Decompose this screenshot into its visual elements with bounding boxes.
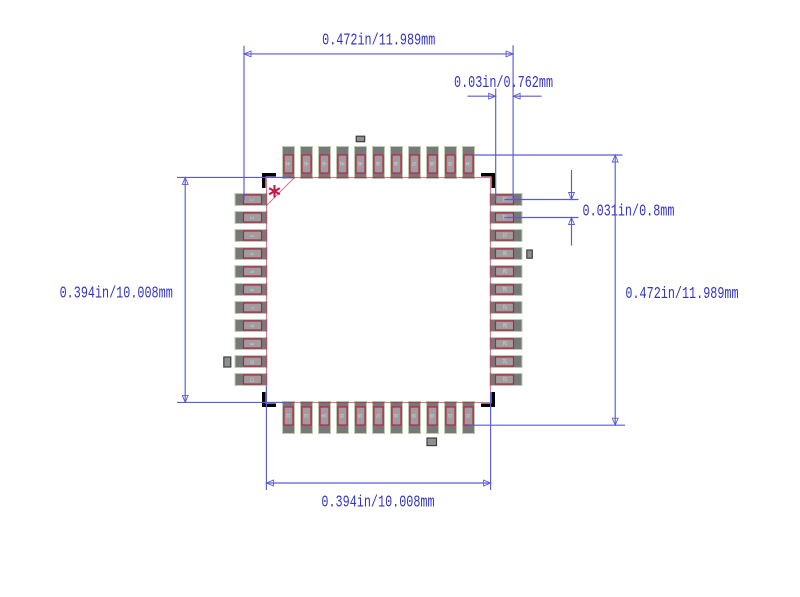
svg-text:25: 25 [502,341,508,346]
corner bracket top-left [264,175,276,188]
pad 28 (right) [490,284,522,296]
pad 24 (right) [490,356,522,368]
pad 25 (right) [490,338,522,350]
pad 42 (top) [319,147,331,179]
orientation mark right [527,250,533,258]
pad 38 (top) [391,147,403,179]
pad 19 (bottom) [409,402,421,434]
pad 26 (right) [490,320,522,332]
svg-text:0.394in/10.008mm: 0.394in/10.008mm [60,285,173,303]
svg-text:0.031in/0.8mm: 0.031in/0.8mm [583,203,675,221]
svg-text:38: 38 [394,160,399,166]
pad 32 (right) [490,212,522,224]
svg-text:20: 20 [430,412,435,418]
pad 8 (left) [235,320,267,332]
pad 4 (left) [235,248,267,260]
pad 44 (top) [283,147,295,179]
pad 22 (bottom) [463,402,475,434]
svg-text:14: 14 [322,412,327,418]
lead length dimension 0.03in/0.762mm [454,74,553,200]
svg-text:31: 31 [502,233,508,238]
svg-text:26: 26 [502,323,508,328]
pad 1 (left) [235,194,267,206]
package outline [267,178,491,403]
orientation mark left [224,357,231,367]
bottom dimension 0.394in/10.008mm [266,386,490,512]
svg-text:0.03in/0.762mm: 0.03in/0.762mm [454,74,553,92]
svg-text:28: 28 [502,287,508,292]
pad 10 (left) [235,356,267,368]
svg-text:43: 43 [304,160,309,166]
pad 23 (right) [490,374,522,386]
pad 35 (top) [445,147,457,179]
pad 40 (top) [355,147,367,179]
pad 11 (left) [235,374,267,386]
right dimension 0.472in/11.989mm [469,155,739,425]
svg-text:40: 40 [358,160,363,166]
pad 41 (top) [337,147,349,179]
pad 5 (left) [235,266,267,278]
left dimension 0.394in/10.008mm [60,177,289,402]
svg-text:17: 17 [376,412,381,418]
corner bracket bottom-left [264,392,276,405]
top dimension 0.472in/11.989mm [244,32,513,200]
svg-text:11: 11 [249,377,255,382]
pad 31 (right) [490,230,522,242]
pad 12 (bottom) [283,402,295,434]
svg-text:24: 24 [502,359,508,364]
pad 21 (bottom) [445,402,457,434]
svg-text:0.472in/11.989mm: 0.472in/11.989mm [625,285,738,303]
orientation mark top [356,136,365,142]
pin-1 chamfer line [267,178,295,206]
svg-text:15: 15 [340,412,345,418]
svg-text:27: 27 [502,305,508,310]
pad 39 (top) [373,147,385,179]
pad 6 (left) [235,284,267,296]
svg-text:0.472in/11.989mm: 0.472in/11.989mm [322,32,435,50]
svg-text:13: 13 [304,412,309,418]
corner bracket bottom-right [481,392,493,405]
svg-text:36: 36 [430,160,435,166]
svg-text:23: 23 [502,377,508,382]
pin-1 asterisk [269,185,280,197]
pad 20 (bottom) [427,402,439,434]
pitch dimension 0.031in/0.8mm [505,170,675,246]
pad 17 (bottom) [373,402,385,434]
svg-text:44: 44 [286,160,291,166]
svg-text:0.394in/10.008mm: 0.394in/10.008mm [321,494,434,512]
pad 34 (top) [463,147,475,179]
svg-text:30: 30 [502,251,508,256]
pad 9 (left) [235,338,267,350]
svg-text:34: 34 [466,160,471,166]
pad 27 (right) [490,302,522,314]
svg-text:42: 42 [322,160,327,166]
svg-text:19: 19 [412,412,417,418]
svg-text:18: 18 [394,412,399,418]
pad 18 (bottom) [391,402,403,434]
svg-text:29: 29 [502,269,508,274]
svg-text:21: 21 [448,412,453,418]
svg-text:37: 37 [412,160,417,166]
svg-text:16: 16 [358,412,363,418]
pad 16 (bottom) [355,402,367,434]
svg-text:12: 12 [286,412,291,418]
pad 15 (bottom) [337,402,349,434]
pad 30 (right) [490,248,522,260]
pad 3 (left) [235,230,267,242]
svg-text:39: 39 [376,160,381,166]
svg-text:10: 10 [249,359,255,364]
pad 37 (top) [409,147,421,179]
svg-text:41: 41 [340,160,345,166]
pad 29 (right) [490,266,522,278]
pad 2 (left) [235,212,267,224]
pad 36 (top) [427,147,439,179]
pad 43 (top) [301,147,313,179]
pad 33 (right) [490,194,522,206]
corner bracket top-right [481,175,493,188]
svg-text:22: 22 [466,412,471,418]
orientation mark bottom [427,438,437,446]
pad 7 (left) [235,302,267,314]
pad 14 (bottom) [319,402,331,434]
pad 13 (bottom) [301,402,313,434]
svg-text:35: 35 [448,160,453,166]
